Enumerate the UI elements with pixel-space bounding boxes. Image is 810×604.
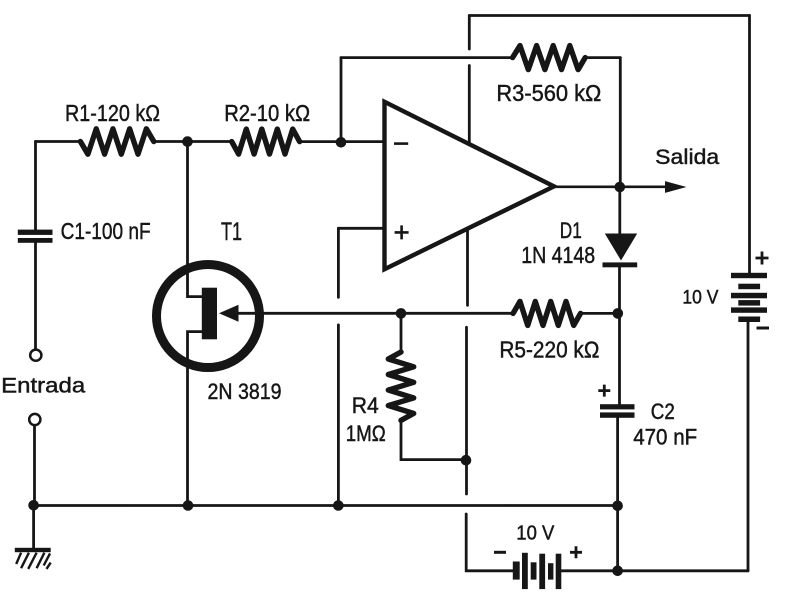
wire right rail upper (748, 16, 751, 273)
wire plus input down lower (337, 325, 340, 506)
node source-ground (183, 500, 194, 511)
svg-text:C2: C2 (651, 399, 675, 424)
wire bottom battery right lead (561, 569, 749, 572)
svg-text:D1: D1 (560, 218, 582, 243)
capacitor C1 (18, 230, 53, 243)
svg-text:1MΩ: 1MΩ (346, 421, 386, 446)
wire input top left (36, 140, 81, 143)
node plus-ground (333, 500, 344, 511)
capacitor C2 (600, 404, 635, 418)
wire bottom ground rail (34, 504, 618, 507)
wire right rail lower (747, 322, 750, 571)
wire R3 right (585, 56, 620, 59)
svg-text:R5-220 kΩ: R5-220 kΩ (499, 337, 599, 363)
wire top feedback rail (469, 14, 749, 17)
resistor R1 (80, 129, 153, 154)
svg-text:R3-560 kΩ: R3-560 kΩ (496, 80, 601, 106)
wire gate horizontal (238, 312, 513, 315)
wire R4 bottom lead (401, 420, 466, 459)
wire R2 to node B (300, 140, 385, 143)
battery B2 bottom 10V (513, 553, 562, 589)
wire supply mid vertical through R4 node (465, 327, 468, 494)
node gate-R4 (396, 308, 407, 319)
svg-text:10 V: 10 V (682, 288, 718, 309)
battery B1 plus sign (756, 252, 769, 265)
wire transistor source lead (188, 332, 203, 506)
svg-text:R2-10 kΩ: R2-10 kΩ (224, 100, 310, 126)
resistor R2 (232, 129, 300, 154)
node output (615, 182, 626, 193)
op-amp plus sign (395, 225, 409, 239)
resistor R5 (513, 301, 580, 325)
svg-text:1N 4148: 1N 4148 (521, 242, 595, 268)
node R5-C2 (613, 308, 624, 319)
battery B2 plus sign (570, 546, 582, 558)
svg-text:R4: R4 (352, 393, 379, 418)
diode D1 (603, 234, 638, 268)
svg-text:T1: T1 (221, 218, 242, 246)
node ground-entrada (28, 500, 39, 511)
wire output node to diode (618, 187, 621, 234)
transistor Q1 T1 (157, 265, 260, 368)
wire supply mid vertical below op-amp (466, 230, 469, 305)
battery B2 minus sign (494, 551, 506, 554)
battery B1 minus sign (757, 327, 770, 330)
node inverting input (336, 137, 347, 148)
wire ground stub (32, 506, 35, 548)
wire R3 down to output node (619, 58, 622, 187)
wire supply mid vertical top segment (468, 16, 471, 50)
svg-text:Entrada: Entrada (1, 375, 85, 398)
wire C1 to terminal (34, 243, 37, 349)
wire C2 down to battery rail (616, 418, 619, 571)
wire R4 top lead (400, 313, 403, 352)
op-amp U1 (385, 102, 555, 269)
wire diode to C2 (618, 267, 621, 404)
node C2-ground (612, 501, 623, 512)
node R4-supply-mid (461, 455, 472, 466)
wire op-amp plus input (338, 227, 384, 230)
svg-text:10 V: 10 V (516, 523, 555, 545)
wire supply mid vertical to battery corner (466, 514, 513, 571)
svg-text:470 nF: 470 nF (633, 425, 697, 450)
wire transistor drain lead (188, 142, 203, 297)
wire terminal 2 down (33, 426, 36, 506)
op-amp minus sign (394, 142, 408, 145)
wire feedback up from node B (340, 58, 343, 142)
resistor R3 (513, 46, 586, 70)
node dots (28, 136, 625, 576)
terminal Entrada upper (30, 350, 41, 361)
capacitor C2 plus sign (598, 385, 610, 397)
wire left vertical to C1 (34, 142, 37, 230)
svg-text:2N 3819: 2N 3819 (208, 379, 282, 404)
wire supply mid vertical below R3 wire (468, 66, 471, 144)
node battery-rail (612, 566, 623, 577)
wire output with Salida arrow (554, 181, 687, 193)
wire plus input down upper (337, 228, 340, 297)
ground (15, 548, 51, 569)
node R1-R2 (182, 136, 193, 147)
terminal Entrada lower (29, 414, 40, 425)
wire R5 right lead (581, 312, 618, 315)
svg-text:Salida: Salida (655, 146, 719, 169)
wire feedback to R3 (341, 56, 513, 59)
svg-text:R1-120 kΩ: R1-120 kΩ (65, 100, 160, 126)
wire R1 to node A (154, 140, 232, 143)
battery B1 right 10V (731, 273, 767, 322)
resistor R4 (388, 352, 413, 420)
svg-text:C1-100 nF: C1-100 nF (61, 218, 151, 244)
